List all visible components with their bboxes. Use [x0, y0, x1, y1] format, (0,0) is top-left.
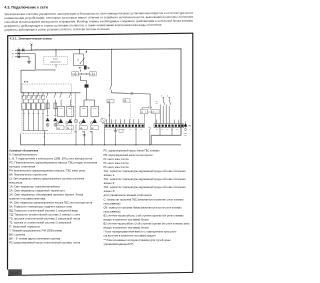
main switch G feed: [79, 50, 81, 54]
terminal strip left segment: [104, 124, 144, 128]
bus arrow mark: [85, 51, 87, 53]
svg-text:зоны 3: зоны 3: [104, 189, 116, 193]
legend left column: [9, 148, 98, 244]
svg-text:стр. 16: стр. 16: [10, 272, 18, 275]
small boxes below strip: [119, 129, 123, 132]
motor label boxes: [57, 126, 99, 130]
fuse X on L line 2: [22, 49, 24, 51]
local bus: [23, 130, 48, 132]
svg-text:насоса: насоса: [9, 181, 23, 184]
motor triangles: [59, 119, 97, 123]
left border: [7, 35, 9, 269]
drop from local bus to chassis: [43, 131, 45, 145]
svg-text:1: 1: [161, 96, 162, 98]
relay contact enclosures: [22, 95, 45, 99]
PE drop to ground: [28, 57, 30, 62]
svg-text:Р2: насос зоны 2 котла: Р2: насос зоны 2 котла: [104, 161, 129, 165]
svg-text:ТЗ: прогрев отопительной систе: ТЗ: прогрев отопительной системы 2 зонал…: [9, 216, 80, 220]
svg-text:ВК: горелка: ВК: горелка: [9, 232, 25, 236]
svg-text:СВ: термостат прогрева баков (: СВ: термостат прогрева баков (включается…: [104, 205, 182, 209]
svg-text:4А: Свет индикатор циркуляцион: 4А: Свет индикатор циркуляционного насос…: [9, 200, 92, 204]
feed to contactors pair: [84, 88, 95, 107]
supply terminal X: [30, 44, 32, 46]
svg-text:РС: циркуляционный насос линии: РС: циркуляционный насос линии ГВС клемм…: [104, 149, 160, 153]
ground symbol: [27, 62, 31, 64]
svg-text:5А: Термостат температуры пода: 5А: Термостат температуры подачи в корпу…: [9, 204, 72, 208]
mid label boxes 1P 2P: [140, 110, 159, 114]
ground below strip: [115, 128, 117, 131]
svg-text:Блок: Блок: [53, 59, 57, 61]
svg-text:входит в комплект поставки) бл: входит в комплект поставки) блока: [104, 226, 149, 230]
svg-text:3: 3: [76, 74, 77, 76]
wire N: [15, 53, 35, 55]
switch group label: [155, 101, 158, 103]
fuse body: [84, 66, 86, 70]
small motor units in block: [46, 114, 58, 126]
svg-text:документы, действующие в стран: документы, действующие в стране установк…: [4, 27, 109, 32]
svg-text:В1 счетчик часов работы 1-ой с: В1 счетчик часов работы 1-ой ступени гор…: [104, 213, 184, 217]
main switch G box: [73, 54, 83, 66]
wire T/PE: [15, 56, 29, 58]
control unit feed: [55, 50, 57, 57]
connector marks on drop: [148, 106, 151, 108]
svg-text:управления: управления: [50, 61, 60, 63]
top bus: [31, 49, 181, 135]
svg-text:управляющающей Р): управляющающей Р): [104, 242, 134, 246]
fuse X on T line: [18, 56, 20, 58]
fuse X on N line: [18, 52, 20, 54]
svg-text:С: термостат прогрева ГВС (вкл: С: термостат прогрева ГВС (включается в …: [104, 197, 184, 201]
svg-text:для управления зонами отоплени: для управления зонами отопления: [104, 194, 153, 197]
svg-text:(за вычетом в комплекте постав: (за вычетом в комплекте поставки) модуля: [104, 234, 156, 238]
footnote dots: [24, 81, 25, 82]
black component at dashed box top: [85, 84, 89, 87]
feeder wire inside relay block: [21, 92, 81, 94]
PB symbol right of strip: [184, 123, 188, 127]
svg-text:Условные обозначения: Условные обозначения: [9, 148, 38, 152]
small vertical with junction: [108, 103, 110, 124]
svg-text:РС циркуляционный насос отопит: РС циркуляционный насос отопительной сис…: [9, 240, 80, 244]
relay block dashed box: [22, 84, 72, 134]
legend right column: [104, 149, 190, 246]
relay value labels: [23, 109, 97, 114]
svg-text:РС: Переключатель циркуляционн: РС: Переключатель циркуляционного насоса…: [9, 160, 98, 164]
svg-text:ВК – 2° клемм двухступенчатая: ВК – 2° клемм двухступенчатая горелка: [9, 236, 60, 240]
svg-text:зоны 2: зоны 2: [104, 181, 116, 185]
svg-text:Т: Плавкий предохранитель F4А: Т: Плавкий предохранитель F4А 250В клемм…: [9, 228, 62, 232]
connector row under switch: [80, 69, 82, 71]
svg-text:L, N, T: подключение к электро: L, N, T: подключение к электросети 230В,…: [9, 156, 92, 160]
tiny label boxes above: [107, 100, 114, 103]
svg-text:ВА: Переключатель горелки сети: ВА: Переключатель горелки сети: [9, 172, 47, 176]
PB value label: [184, 134, 187, 136]
fuse 2P / Pr labels: [79, 67, 91, 69]
svg-text:Т2: горелка от отопительной си: Т2: горелка от отопительной системы 2 зо…: [9, 220, 71, 224]
svg-text:ТА1: термостат температуры окр: ТА1: термостат температуры окружающей ср…: [104, 169, 186, 173]
right switch pair: [160, 98, 171, 124]
connector blob on wire: [131, 92, 133, 94]
frame top: [8, 33, 193, 36]
svg-text:П: Защитный термостат: П: Защитный термостат: [9, 224, 41, 228]
left columns down to local bus: [24, 110, 43, 131]
svg-text:3А: Свет индикатор «блокировка: 3А: Свет индикатор «блокировка горелки» …: [9, 192, 83, 196]
svg-text:Р3: насос зоны 3 котла: Р3: насос зоны 3 котла: [104, 165, 129, 169]
svg-text:поставки): поставки): [104, 201, 121, 205]
gray stub: [36, 69, 56, 71]
mains labels L N T: [12, 48, 23, 59]
svg-text:контуры отопления: контуры отопления: [9, 165, 36, 168]
svg-text:1: 1: [90, 74, 91, 76]
junction dot L-bus: [31, 50, 32, 51]
svg-text:комплект поставки) монтажа: комплект поставки) монтажа: [9, 196, 45, 200]
svg-text:ТА3: термостат температуры окр: ТА3: термостат температуры окружающей ср…: [104, 185, 186, 189]
svg-text:ТД: Термостат отопительной сис: ТД: Термостат отопительной системы 2 «вк…: [9, 212, 80, 216]
svg-text:зоны 1: зоны 1: [104, 173, 116, 177]
svg-text:ТА2: термостат температуры окр: ТА2: термостат температуры окружающей ср…: [104, 177, 186, 181]
strip drops to chassis bus: [103, 123, 172, 145]
bottom rule: [8, 272, 193, 275]
up ticks left strip: [107, 119, 139, 124]
main drop from top bus: [111, 49, 113, 84]
wire L phase: [15, 49, 32, 51]
svg-text:** блок клеммных колодок (поми: ** блок клеммных колодок (помимо для пут…: [104, 238, 171, 242]
dashed sense line: [129, 102, 131, 124]
control unit box (dashed): [44, 57, 68, 65]
up ticks right strip: [156, 120, 179, 124]
svg-text:2: 2: [145, 112, 146, 114]
drop to block: [81, 76, 87, 85]
svg-text:4.3. Подключение к сети: 4.3. Подключение к сети: [4, 6, 47, 10]
svg-text:ВД: Термостат отопительной сис: ВД: Термостат отопительной системы 1 зон…: [9, 208, 78, 212]
svg-text:2: 2: [156, 112, 157, 114]
svg-text:входит в комплект поставки) бл: входит в комплект поставки) блока: [104, 218, 149, 222]
svg-text:РВ: циркуляционный насос котла: РВ: циркуляционный насос котла горелки: [104, 153, 153, 157]
terminal strip right segment: [154, 124, 183, 128]
contactor tall boxes: [58, 106, 99, 116]
relay coil boxes (left columns): [22, 103, 57, 110]
drops from label boxes to strip: [144, 114, 155, 124]
switch blade: [80, 58, 85, 64]
svg-text:4.3.1. Электрическая схема: 4.3.1. Электрическая схема: [10, 37, 52, 41]
fuse X on L line 1: [18, 49, 20, 51]
feeder junction dots: [23, 92, 71, 93]
bottom chassis bus: [21, 134, 181, 145]
svg-text:G: Главный выключатель: G: Главный выключатель: [9, 152, 37, 156]
three drops with ground between motors and strip: [76, 124, 92, 145]
N feed drop to relay block: [21, 54, 35, 93]
svg-text:Р4: выключатель циркуляционног: Р4: выключатель циркуляционного насоса Т…: [9, 168, 85, 172]
svg-text:поставки): поставки): [104, 209, 121, 213]
relay contacts row: [22, 93, 70, 114]
svg-text:G: G: [77, 59, 79, 61]
right border: [192, 33, 194, 273]
svg-text:L3: Свет индикатор главного ци: L3: Свет индикатор главного циркуляционн…: [9, 176, 84, 180]
cross wire to right section: [111, 93, 150, 110]
svg-text:2: 2: [167, 96, 168, 98]
svg-text:В2 счетчик часов работы 2-ой с: В2 счетчик часов работы 2-ой ступени гор…: [104, 222, 190, 226]
tiny terminal numbers below strip: [106, 129, 178, 131]
pressure switch circle: [101, 118, 105, 122]
svg-text:2А: Свет индикатор «защитный т: 2А: Свет индикатор «защитный термостат»: [9, 188, 65, 192]
paragraph: [4, 11, 193, 32]
svg-text:1А: Свет индикатор «горелка вк: 1А: Свет индикатор «горелка включена»: [9, 184, 60, 188]
riser to supply terminal: [30, 45, 32, 51]
control unit lower stub: [55, 65, 57, 68]
svg-text:Р1: насос зоны 1 котла: Р1: насос зоны 1 котла: [104, 157, 129, 161]
footer tab: [8, 269, 22, 275]
svg-text:* блок термоуправления вместе: * блок термоуправления вместе с помещени…: [104, 230, 177, 234]
switch on drop: [110, 85, 112, 90]
